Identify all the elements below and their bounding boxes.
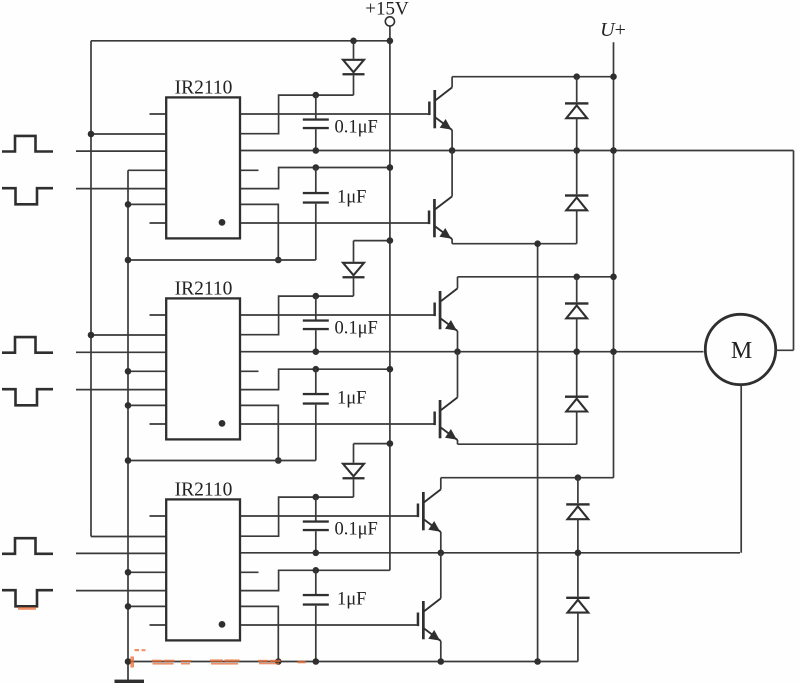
- svg-text:1μF: 1μF: [337, 590, 366, 610]
- svg-text:IR2110: IR2110: [175, 78, 233, 99]
- svg-text:U+: U+: [600, 19, 626, 41]
- svg-text:IR2110: IR2110: [175, 480, 233, 501]
- svg-text:0.1μF: 0.1μF: [335, 519, 378, 539]
- svg-text:+15V: +15V: [365, 0, 409, 20]
- svg-text:M: M: [731, 338, 752, 364]
- svg-text:0.1μF: 0.1μF: [335, 117, 378, 137]
- svg-text:0.1μF: 0.1μF: [335, 318, 378, 338]
- svg-text:1μF: 1μF: [337, 389, 366, 409]
- svg-text:1μF: 1μF: [337, 188, 366, 208]
- svg-text:IR2110: IR2110: [175, 279, 233, 300]
